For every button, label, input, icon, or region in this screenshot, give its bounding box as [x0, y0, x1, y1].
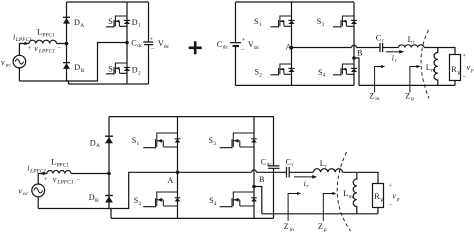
svg-text:p: p	[470, 68, 474, 74]
svg-text:R: R	[451, 65, 457, 74]
svg-text:2: 2	[259, 72, 262, 78]
svg-text:B: B	[81, 68, 85, 74]
wire ac return and riser to node A	[38, 172, 177, 208]
svg-text:L: L	[343, 189, 348, 198]
wire Lr to load branch	[343, 172, 379, 183]
inductor LPFC1 coil	[29, 40, 57, 43]
svg-text:−: −	[389, 202, 393, 209]
capacitor Cdc plates	[268, 166, 280, 168]
diode DA	[105, 136, 113, 143]
svg-text:+: +	[462, 52, 466, 59]
svg-text:R: R	[374, 192, 380, 201]
wire Rp bottom lead	[377, 208, 379, 214]
top rail	[67, 1, 149, 3]
svg-text:LPFC1: LPFC1	[56, 180, 73, 186]
svg-text:1: 1	[137, 141, 140, 147]
diode DA	[63, 17, 70, 23]
svg-text:4: 4	[214, 201, 217, 207]
tank bottom wire	[262, 213, 378, 215]
svg-text:PFC1: PFC1	[57, 162, 70, 168]
wire source bottom lead	[37, 197, 39, 209]
wire node B step down	[254, 187, 262, 214]
leg S1 S2	[291, 2, 293, 85]
svg-text:Z: Z	[405, 91, 410, 100]
left rail with battery gap	[235, 2, 237, 85]
node dot inductor to diode leg	[107, 172, 111, 176]
impedance arrow Zin	[288, 192, 301, 221]
svg-text:L: L	[37, 28, 42, 37]
svg-text:in: in	[375, 96, 380, 102]
diode DB	[63, 63, 70, 69]
dashed transformer boundary arc	[337, 152, 350, 231]
battery Vdc short plate	[233, 45, 239, 47]
magnetizing inductor Lm branch	[434, 48, 438, 86]
wire jog at diode leg bottom	[109, 209, 111, 219]
svg-text:v: v	[53, 175, 57, 184]
svg-text:v: v	[34, 44, 38, 53]
wire jog at diode leg bottom	[67, 81, 69, 84]
svg-text:D: D	[132, 18, 138, 27]
capacitor Cdc plates	[143, 42, 153, 45]
svg-text:4: 4	[323, 73, 326, 79]
svg-text:A: A	[96, 143, 100, 149]
svg-text:+: +	[28, 45, 32, 52]
diode leg	[66, 2, 68, 81]
svg-text:in: in	[290, 227, 295, 232]
svg-text:LPFC1: LPFC1	[15, 37, 32, 43]
node A dot	[176, 171, 180, 175]
inductor LPFC1 coil	[47, 171, 71, 174]
capacitor Cr plates	[287, 167, 290, 178]
svg-text:L: L	[51, 157, 56, 166]
sine wave inside source	[34, 188, 43, 193]
capacitor Cr plates	[380, 43, 383, 52]
svg-text:Z: Z	[284, 222, 289, 231]
tank wire A to hop	[178, 171, 252, 173]
svg-text:1: 1	[259, 22, 262, 28]
node A dot	[290, 46, 294, 50]
svg-text:A: A	[286, 43, 292, 52]
svg-text:v: v	[1, 58, 5, 67]
svg-text:L: L	[426, 63, 431, 72]
wire Cr to Lr	[383, 47, 399, 49]
load resistor Rp	[373, 184, 384, 208]
svg-text:dc: dc	[164, 44, 170, 50]
node dot inductor to diode leg	[65, 42, 69, 46]
bottom rail	[236, 84, 355, 86]
svg-text:D: D	[90, 138, 96, 147]
svg-text:A: A	[167, 176, 173, 185]
svg-text:p: p	[396, 196, 400, 202]
hop over leg	[252, 170, 257, 172]
wire inductor to diode leg	[71, 173, 109, 175]
capacitor Cdc branch	[273, 117, 275, 219]
magnetizing inductor Lm branch	[353, 172, 357, 214]
switch S1	[143, 133, 180, 148]
svg-text:2: 2	[113, 69, 116, 75]
svg-text:p: p	[458, 70, 461, 76]
svg-text:−: −	[151, 46, 155, 53]
svg-text:dc: dc	[267, 162, 273, 168]
diode leg	[108, 117, 110, 209]
inductor Lr coil	[399, 45, 425, 48]
ac source vac circle	[32, 184, 45, 197]
leg S3 S4	[353, 2, 355, 85]
switch S2	[143, 192, 180, 207]
svg-text:p: p	[324, 227, 327, 232]
svg-text:m: m	[349, 194, 354, 200]
hop over leg	[352, 45, 357, 47]
svg-text:1: 1	[138, 23, 141, 29]
tank wire A to Cr with hop	[292, 47, 352, 49]
wire Lr to load branch	[424, 48, 455, 55]
wire source bottom lead	[18, 68, 20, 81]
top rail	[236, 1, 355, 3]
svg-text:−: −	[76, 176, 80, 183]
switch S2	[271, 64, 295, 76]
switch S3	[333, 16, 357, 28]
current arrow iLPFC1	[20, 42, 29, 45]
svg-text:A: A	[80, 23, 84, 29]
svg-text:r: r	[413, 40, 415, 46]
wire Rp bottom lead	[454, 81, 456, 86]
svg-text:B: B	[357, 49, 363, 58]
wire hop to Cr	[356, 47, 380, 49]
svg-text:dc: dc	[223, 45, 229, 51]
svg-text:+: +	[388, 182, 392, 189]
svg-text:LPFC1: LPFC1	[29, 168, 46, 174]
dashed transformer boundary arc	[421, 30, 429, 99]
svg-text:dc: dc	[137, 43, 143, 49]
svg-text:B: B	[95, 198, 99, 204]
svg-text:L: L	[320, 159, 325, 168]
wire inductor to diode leg	[57, 43, 67, 45]
svg-text:−: −	[241, 47, 245, 54]
switch S4	[333, 64, 357, 76]
capacitor leg wires	[148, 2, 150, 84]
svg-text:3: 3	[322, 22, 325, 28]
svg-text:+: +	[242, 36, 246, 43]
svg-text:p: p	[411, 96, 414, 102]
svg-text:2: 2	[138, 70, 141, 76]
svg-text:D: D	[74, 63, 80, 72]
svg-text:3: 3	[213, 141, 216, 147]
svg-text:Z: Z	[369, 91, 374, 100]
svg-text:L: L	[408, 35, 413, 44]
top rail	[109, 116, 274, 118]
svg-text:2: 2	[139, 201, 142, 207]
switch S4	[220, 192, 257, 207]
svg-text:D: D	[132, 65, 138, 74]
wire node B step down	[354, 58, 359, 85]
leg S3 S4	[253, 117, 255, 219]
svg-text:PFC1: PFC1	[42, 32, 55, 38]
wire source top lead to inductor	[19, 44, 29, 56]
ac source vac circle	[13, 55, 26, 68]
tank bottom wire	[359, 84, 455, 86]
current arrow ir	[294, 175, 317, 179]
switch S3	[220, 133, 257, 148]
svg-text:D: D	[74, 18, 80, 27]
wire hop to Cr	[256, 171, 286, 173]
current arrow iLPFC1	[39, 172, 47, 175]
bottom rail	[69, 83, 149, 85]
node B dot	[352, 56, 356, 60]
svg-text:−: −	[462, 74, 466, 81]
sine wave inside source	[15, 59, 23, 64]
svg-text:r: r	[325, 164, 327, 170]
svg-text:+: +	[44, 176, 48, 183]
svg-text:Z: Z	[318, 222, 323, 231]
switch leg	[126, 2, 128, 84]
svg-text:ac: ac	[23, 191, 29, 197]
svg-text:LPFC1: LPFC1	[38, 49, 55, 55]
impedance arrow Zin	[375, 65, 386, 93]
inductor Lr coil	[313, 169, 342, 173]
svg-text:m: m	[431, 68, 436, 74]
switch S1	[271, 16, 295, 28]
svg-text:B: B	[259, 175, 265, 184]
svg-text:1: 1	[113, 22, 116, 28]
plus sign	[189, 41, 202, 54]
current arrow ir	[386, 50, 404, 54]
svg-text:p: p	[381, 197, 384, 203]
wire ac return to switch-leg midpoint	[19, 43, 127, 82]
svg-text:r: r	[292, 162, 294, 168]
node dot switch leg midpoint	[125, 41, 129, 45]
load resistor Rp	[450, 55, 461, 81]
svg-text:ac: ac	[6, 63, 12, 69]
svg-text:−: −	[57, 45, 61, 52]
svg-text:D: D	[89, 193, 95, 202]
switch S2 with body diode D2	[106, 63, 130, 75]
svg-text:+: +	[150, 36, 154, 43]
svg-text:dc: dc	[254, 45, 260, 51]
bottom rail	[111, 217, 274, 219]
wire source top lead	[38, 174, 47, 185]
switch S1 with body diode D1	[106, 16, 130, 28]
svg-text:v: v	[18, 186, 22, 195]
diode DB	[105, 196, 113, 203]
node B dot	[252, 185, 256, 189]
impedance arrow Zp	[323, 192, 336, 221]
impedance arrow Zp	[410, 65, 421, 93]
wire Cr to Lr	[289, 171, 313, 173]
leg S1 S2	[177, 117, 179, 219]
svg-text:r: r	[382, 38, 384, 44]
battery Vdc long plate	[230, 42, 241, 44]
